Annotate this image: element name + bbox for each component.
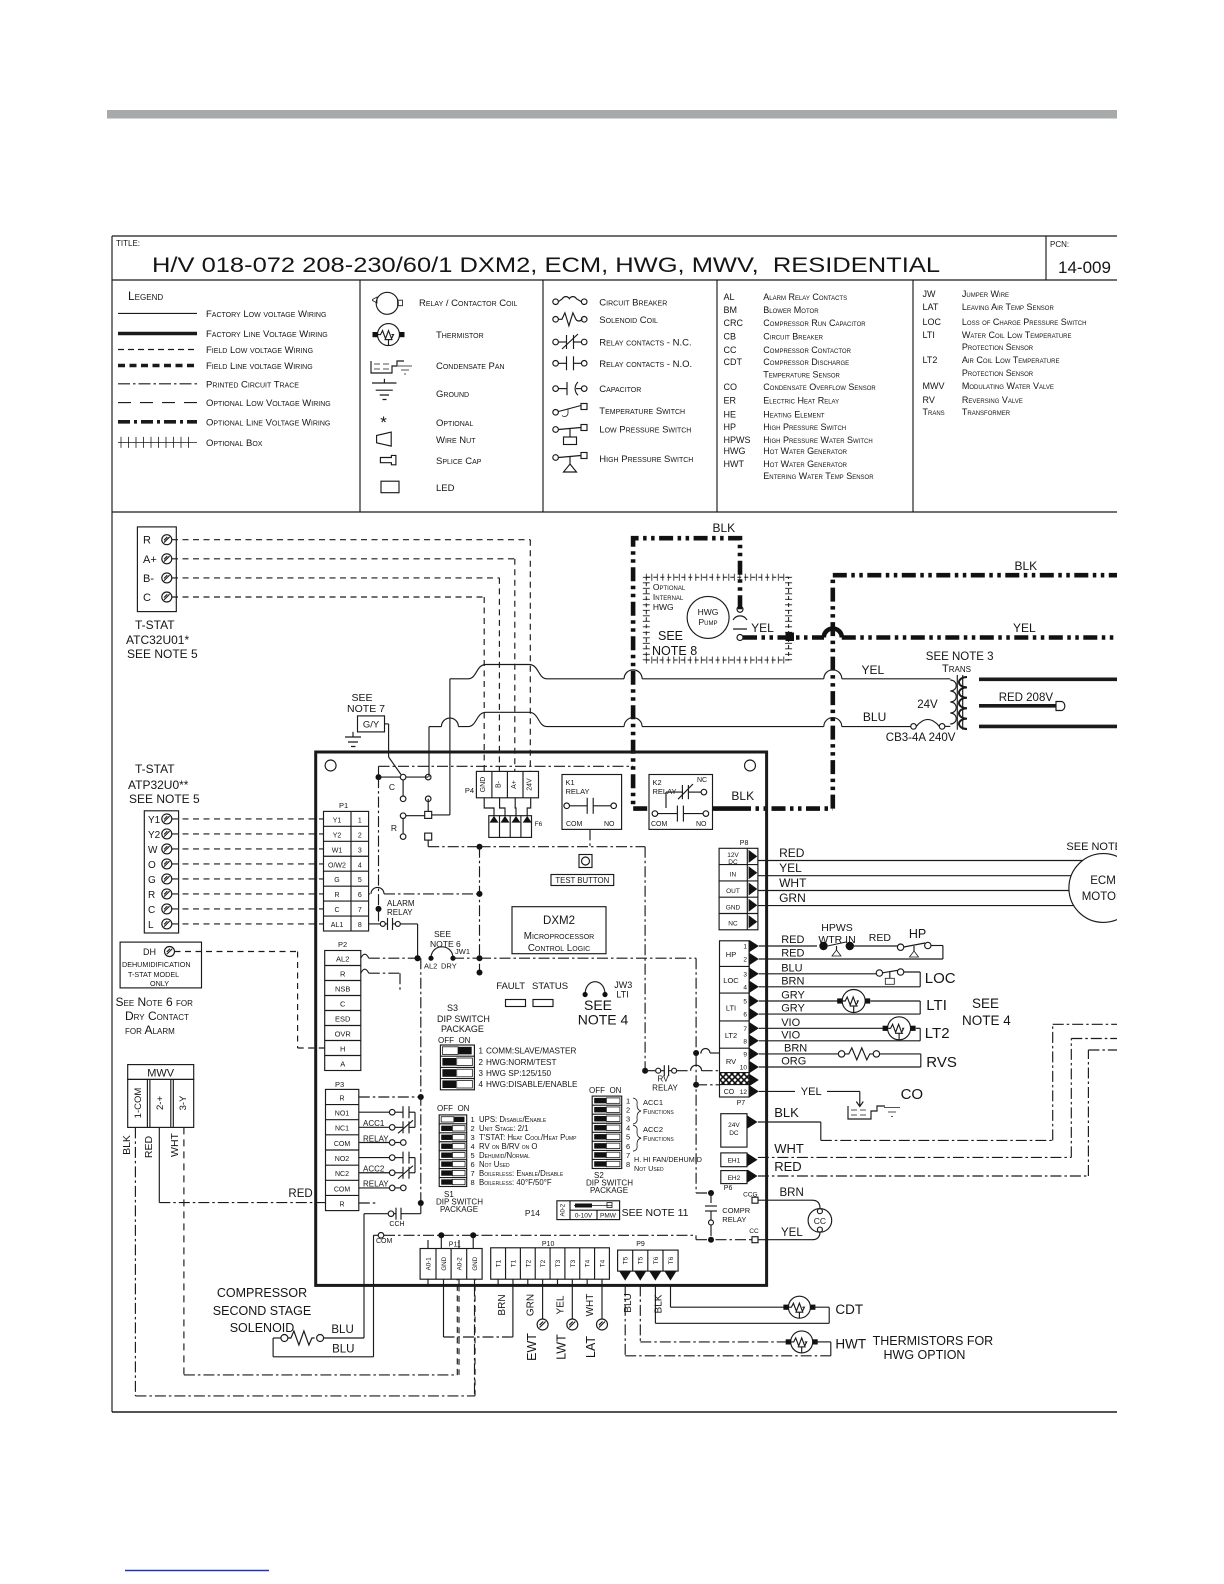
svg-text:DC: DC xyxy=(728,859,738,866)
svg-text:NC: NC xyxy=(697,777,707,784)
svg-text:ER: ER xyxy=(724,395,737,405)
svg-text:YEL: YEL xyxy=(1013,621,1036,635)
svg-text:G: G xyxy=(334,877,339,884)
svg-text:8: 8 xyxy=(743,1038,747,1045)
svg-text:DXM2: DXM2 xyxy=(543,915,575,927)
svg-text:HWG:DISABLE/ENABLE: HWG:DISABLE/ENABLE xyxy=(486,1080,578,1089)
svg-text:HWG:NORM/TEST: HWG:NORM/TEST xyxy=(486,1058,557,1067)
svg-text:COMPR: COMPR xyxy=(722,1206,751,1215)
svg-text:IN: IN xyxy=(730,872,737,879)
svg-text:High Pressure Switch: High Pressure Switch xyxy=(599,454,693,465)
svg-text:Thermistor: Thermistor xyxy=(436,330,484,341)
svg-text:BLK: BLK xyxy=(654,1294,665,1313)
svg-text:RELAY: RELAY xyxy=(566,787,590,796)
svg-text:8: 8 xyxy=(358,922,362,929)
svg-text:PACKAGE: PACKAGE xyxy=(441,1024,484,1034)
contact C xyxy=(400,774,406,780)
svg-text:DC: DC xyxy=(729,1130,739,1137)
thermistor LT2 xyxy=(888,1017,911,1040)
svg-text:R: R xyxy=(340,970,346,979)
svg-text:C: C xyxy=(389,782,395,792)
svg-text:5: 5 xyxy=(626,1133,630,1142)
svg-text:3: 3 xyxy=(358,847,362,854)
svg-text:K1: K1 xyxy=(566,778,575,787)
svg-text:RV: RV xyxy=(726,1057,736,1066)
svg-text:WTR IN: WTR IN xyxy=(818,934,855,946)
wire BLK from MWV 1-COM xyxy=(134,1127,136,1396)
svg-text:RELAY: RELAY xyxy=(363,1180,389,1189)
svg-text:COM: COM xyxy=(334,1186,351,1193)
svg-text:NOTE 6: NOTE 6 xyxy=(430,939,461,949)
svg-text:Air Coil Low Temperature: Air Coil Low Temperature xyxy=(962,355,1060,365)
transformer TRANS primary 24V xyxy=(950,680,956,724)
svg-text:ACC2: ACC2 xyxy=(363,1165,385,1174)
svg-text:Wire Nut: Wire Nut xyxy=(436,435,476,446)
svg-text:Y1: Y1 xyxy=(148,815,161,826)
legend symbol temperature switch xyxy=(553,410,559,416)
svg-text:R: R xyxy=(339,1201,344,1208)
svg-text:VIO: VIO xyxy=(781,1017,800,1029)
svg-text:A0-2: A0-2 xyxy=(457,1257,464,1271)
svg-text:T'STAT: Heat Cool/Heat Pump: T'STAT: Heat Cool/Heat Pump xyxy=(479,1133,577,1142)
svg-text:Microprocessor: Microprocessor xyxy=(524,931,594,942)
svg-text:Relay contacts - N.C.: Relay contacts - N.C. xyxy=(599,338,691,349)
svg-text:AL1: AL1 xyxy=(331,922,344,929)
connector P6 24VDC/EH1/EH2 xyxy=(721,1114,747,1147)
svg-text:R: R xyxy=(339,1095,344,1102)
svg-text:Printed Circuit Trace: Printed Circuit Trace xyxy=(206,379,299,390)
svg-text:A: A xyxy=(340,1060,345,1069)
svg-text:RV on B/RV on O: RV on B/RV on O xyxy=(479,1142,537,1151)
svg-text:ECM: ECM xyxy=(1090,875,1116,887)
svg-text:1: 1 xyxy=(358,817,362,824)
legend symbol high pressure switch xyxy=(553,455,559,461)
svg-text:12V: 12V xyxy=(727,852,739,859)
svg-text:AL2: AL2 xyxy=(336,955,349,964)
svg-text:ORG: ORG xyxy=(781,1056,806,1068)
svg-text:BLU: BLU xyxy=(781,962,802,974)
svg-text:WHT: WHT xyxy=(774,1141,804,1156)
relay K2 xyxy=(649,775,713,830)
svg-text:FAULT: FAULT xyxy=(496,981,525,992)
svg-text:T4: T4 xyxy=(599,1259,606,1267)
wire stubs below connectors xyxy=(427,1279,429,1285)
svg-text:T4: T4 xyxy=(585,1259,592,1267)
thermistor CDT loop xyxy=(671,1306,787,1308)
svg-text:YEL: YEL xyxy=(779,861,802,875)
svg-text:Boilerless: Enable/Disable: Boilerless: Enable/Disable xyxy=(479,1169,564,1178)
svg-text:HWG OPTION: HWG OPTION xyxy=(884,1348,966,1362)
svg-text:1: 1 xyxy=(479,1047,484,1056)
jumper JW1 AL2/DRY xyxy=(431,947,453,958)
svg-text:24V: 24V xyxy=(728,1122,740,1129)
switch HP high pressure xyxy=(897,944,903,950)
screw terminals GRN YEL WHT xyxy=(542,1285,544,1319)
svg-text:T5: T5 xyxy=(638,1256,645,1264)
optional box internal HWG xyxy=(643,574,792,664)
svg-text:Condensate Overflow Sensor: Condensate Overflow Sensor xyxy=(763,382,876,392)
wire BLK 24VDC xyxy=(758,1121,821,1123)
svg-text:Control Logic: Control Logic xyxy=(528,943,590,954)
svg-text:Factory Line Voltage Wiring: Factory Line Voltage Wiring xyxy=(206,329,328,340)
svg-text:Y2: Y2 xyxy=(148,830,161,841)
svg-text:NC: NC xyxy=(728,921,738,928)
svg-text:Condensate Pan: Condensate Pan xyxy=(436,361,505,372)
wire BRN RVS row9 xyxy=(759,1053,839,1055)
svg-text:5: 5 xyxy=(471,1151,475,1160)
svg-text:RV: RV xyxy=(923,395,935,405)
relay K1 xyxy=(562,775,622,830)
svg-text:Optional: Optional xyxy=(653,582,686,592)
wire WHT from MWV 3-Y xyxy=(183,1127,185,1375)
legend symbol condensate pan xyxy=(371,361,404,373)
svg-text:BRN: BRN xyxy=(780,1187,804,1199)
svg-text:Heating Element: Heating Element xyxy=(763,409,825,419)
svg-text:Pump: Pump xyxy=(698,617,717,627)
svg-text:C: C xyxy=(148,905,155,916)
svg-text:RELAY: RELAY xyxy=(387,908,413,917)
svg-text:See Note 6 for: See Note 6 for xyxy=(116,995,194,1009)
footer blue line xyxy=(125,1570,269,1572)
svg-text:A0-1: A0-1 xyxy=(426,1257,433,1271)
svg-text:Compressor Discharge: Compressor Discharge xyxy=(763,357,849,367)
svg-text:T1: T1 xyxy=(510,1259,517,1267)
svg-text:24V: 24V xyxy=(917,699,938,711)
solenoid coil RVS reversing valve xyxy=(838,1051,844,1057)
svg-text:Legend: Legend xyxy=(128,289,163,303)
svg-text:P1: P1 xyxy=(339,801,348,810)
svg-text:HWG SP:125/150: HWG SP:125/150 xyxy=(486,1069,552,1078)
wire BLU 24V to transformer xyxy=(429,726,442,728)
svg-text:AL2: AL2 xyxy=(424,962,437,971)
svg-text:B-: B- xyxy=(496,780,503,788)
svg-text:YEL: YEL xyxy=(751,621,774,635)
node COM and trace to compressor relay xyxy=(378,1233,384,1239)
svg-text:DEHUMIDIFICATION: DEHUMIDIFICATION xyxy=(122,960,191,969)
svg-text:Temperature Sensor: Temperature Sensor xyxy=(763,370,840,380)
svg-text:Circuit Breaker: Circuit Breaker xyxy=(763,332,823,342)
wire BLK heavy optional line voltage xyxy=(633,538,740,808)
svg-text:C: C xyxy=(340,1000,346,1009)
svg-text:12: 12 xyxy=(740,1089,748,1096)
svg-text:Unit Stage: 2/1: Unit Stage: 2/1 xyxy=(479,1124,528,1133)
svg-text:T1: T1 xyxy=(496,1259,503,1267)
svg-text:PACKAGE: PACKAGE xyxy=(440,1205,478,1214)
fuse block F6 xyxy=(489,816,532,838)
legend symbol solenoid coil xyxy=(553,317,559,323)
svg-text:L: L xyxy=(148,920,154,931)
svg-text:JW3: JW3 xyxy=(614,980,632,990)
svg-text:ACC1: ACC1 xyxy=(643,1098,663,1107)
svg-text:NC1: NC1 xyxy=(335,1126,349,1133)
svg-text:ALARM: ALARM xyxy=(387,899,415,908)
svg-text:Ground: Ground xyxy=(436,389,469,400)
svg-text:W: W xyxy=(148,845,158,856)
svg-text:SEE: SEE xyxy=(434,929,451,939)
svg-text:3-Y: 3-Y xyxy=(178,1095,189,1110)
svg-text:24V: 24V xyxy=(527,778,534,791)
svg-text:EH2: EH2 xyxy=(728,1175,741,1182)
svg-text:Dry Contact: Dry Contact xyxy=(125,1009,189,1023)
svg-text:10: 10 xyxy=(740,1065,748,1072)
svg-text:2: 2 xyxy=(358,832,362,839)
svg-text:0-10V: 0-10V xyxy=(575,1213,593,1220)
svg-text:HP: HP xyxy=(909,927,926,941)
svg-text:RELAY: RELAY xyxy=(653,787,677,796)
svg-text:G/Y: G/Y xyxy=(363,720,380,731)
svg-text:T-STAT: T-STAT xyxy=(135,618,175,632)
svg-text:LTI: LTI xyxy=(616,990,628,1000)
svg-text:RED: RED xyxy=(288,1188,312,1200)
svg-text:4: 4 xyxy=(743,984,747,991)
svg-text:PACKAGE: PACKAGE xyxy=(590,1186,628,1195)
svg-text:WHT: WHT xyxy=(585,1294,596,1317)
svg-text:RED 208V: RED 208V xyxy=(999,692,1054,704)
svg-text:GND: GND xyxy=(441,1256,448,1270)
svg-text:4: 4 xyxy=(626,1124,630,1133)
svg-text:BRN: BRN xyxy=(497,1294,508,1315)
svg-text:6: 6 xyxy=(358,892,362,899)
thermistor HWT loop xyxy=(640,1341,788,1343)
svg-text:COM: COM xyxy=(566,821,583,828)
svg-text:ATP32U0**: ATP32U0** xyxy=(128,778,189,792)
wire YEL CO row12 xyxy=(759,1090,795,1092)
svg-text:Relay / Contactor Coil: Relay / Contactor Coil xyxy=(419,298,518,309)
svg-text:High Pressure Water Switch: High Pressure Water Switch xyxy=(763,435,872,445)
svg-text:Water Coil Low Temperature: Water Coil Low Temperature xyxy=(962,330,1072,340)
svg-text:A+: A+ xyxy=(143,554,157,566)
svg-text:Reversing Valve: Reversing Valve xyxy=(962,395,1023,405)
svg-text:ACC2: ACC2 xyxy=(643,1125,663,1134)
svg-text:CC: CC xyxy=(724,345,737,355)
connector P4 xyxy=(476,771,538,797)
svg-text:GND: GND xyxy=(472,1256,479,1270)
svg-text:Trans: Trans xyxy=(942,663,971,675)
svg-text:GRY: GRY xyxy=(781,1003,805,1015)
wire YEL 24V to transformer xyxy=(450,678,460,680)
svg-text:CC: CC xyxy=(814,1216,826,1226)
terminal strip T-STAT ATC32U01 xyxy=(137,527,176,612)
svg-text:Optional Box: Optional Box xyxy=(206,438,263,449)
svg-text:RVS: RVS xyxy=(926,1054,957,1071)
svg-text:Circuit Breaker: Circuit Breaker xyxy=(599,298,667,309)
svg-text:BLK: BLK xyxy=(731,789,754,803)
svg-text:NO: NO xyxy=(604,821,615,828)
svg-text:LTI: LTI xyxy=(923,330,935,340)
svg-text:P3: P3 xyxy=(335,1080,344,1089)
svg-text:BLK: BLK xyxy=(713,521,736,535)
svg-text:BLK: BLK xyxy=(121,1135,133,1155)
svg-text:GRY: GRY xyxy=(781,990,805,1002)
svg-text:RED: RED xyxy=(779,846,805,860)
svg-text:COMPRESSOR: COMPRESSOR xyxy=(217,1286,307,1300)
terminal block MWV xyxy=(128,1065,194,1080)
svg-text:PCN:: PCN: xyxy=(1050,240,1069,249)
svg-text:LT2: LT2 xyxy=(925,1025,950,1042)
svg-text:5: 5 xyxy=(358,877,362,884)
svg-text:T2: T2 xyxy=(540,1259,547,1267)
svg-text:Y2: Y2 xyxy=(333,832,342,839)
svg-text:RV: RV xyxy=(658,1075,670,1084)
svg-text:NO: NO xyxy=(696,821,707,828)
wire GRY LTI row5 xyxy=(759,1000,840,1002)
svg-text:Protection Sensor: Protection Sensor xyxy=(962,342,1034,352)
svg-text:GRN: GRN xyxy=(779,891,806,905)
svg-text:HP: HP xyxy=(726,950,736,959)
svg-text:YEL: YEL xyxy=(781,1227,803,1239)
svg-text:COMM:SLAVE/MASTER: COMM:SLAVE/MASTER xyxy=(486,1047,576,1056)
svg-text:Relay contacts - N.O.: Relay contacts - N.O. xyxy=(599,359,692,370)
legend symbol LED xyxy=(381,481,399,493)
svg-text:RED: RED xyxy=(781,934,804,946)
circuit breaker CB3-4A 240V xyxy=(911,724,917,730)
svg-text:YEL: YEL xyxy=(862,663,885,677)
wire AL2 optional trace xyxy=(361,954,369,958)
svg-text:GRN: GRN xyxy=(526,1294,537,1316)
svg-text:RED: RED xyxy=(869,932,892,944)
svg-text:5: 5 xyxy=(743,999,747,1006)
svg-text:BLK: BLK xyxy=(1015,559,1038,573)
svg-text:Factory Low voltage Wiring: Factory Low voltage Wiring xyxy=(206,309,326,320)
svg-text:O/W2: O/W2 xyxy=(328,862,346,869)
svg-text:UPS: Disable/Enable: UPS: Disable/Enable xyxy=(479,1115,547,1124)
svg-text:3: 3 xyxy=(743,971,747,978)
svg-text:Field Line voltage Wiring: Field Line voltage Wiring xyxy=(206,361,313,372)
svg-text:7: 7 xyxy=(471,1169,475,1178)
svg-text:*: * xyxy=(380,413,387,432)
svg-text:Capacitor: Capacitor xyxy=(599,384,641,395)
svg-text:3: 3 xyxy=(471,1133,475,1142)
svg-text:THERMISTORS FOR: THERMISTORS FOR xyxy=(873,1334,994,1348)
svg-text:High Pressure Switch: High Pressure Switch xyxy=(763,422,846,432)
svg-text:HWT: HWT xyxy=(724,459,745,469)
switch HPWS WTR IN xyxy=(819,942,827,950)
svg-text:DIP SWITCH: DIP SWITCH xyxy=(437,1014,490,1024)
wire trace R row xyxy=(369,893,370,895)
svg-text:2: 2 xyxy=(626,1106,630,1115)
svg-text:CC: CC xyxy=(749,1228,759,1235)
svg-text:G: G xyxy=(148,875,156,886)
svg-text:MWV: MWV xyxy=(147,1068,175,1080)
svg-text:EWT: EWT xyxy=(525,1333,539,1361)
switch LOC loss of charge xyxy=(876,970,882,976)
svg-text:CRC: CRC xyxy=(724,318,744,328)
svg-text:HP: HP xyxy=(724,422,737,432)
svg-text:4: 4 xyxy=(471,1142,475,1151)
DXM2 board outline xyxy=(316,752,767,1285)
test button xyxy=(579,855,592,868)
svg-text:3: 3 xyxy=(626,1115,630,1124)
svg-text:H: H xyxy=(340,1045,345,1054)
svg-text:BLK: BLK xyxy=(774,1105,799,1120)
legend symbol relay / contactor coil xyxy=(376,292,398,314)
svg-text:R: R xyxy=(334,892,339,899)
svg-text:NC2: NC2 xyxy=(335,1171,349,1178)
wire trace P3 R rows xyxy=(359,1096,421,1098)
svg-text:Blower Motor: Blower Motor xyxy=(763,305,819,315)
wire DH to P2 H (dashed) xyxy=(298,1047,325,1049)
compressor contactor CC coil xyxy=(808,1209,832,1233)
svg-text:R: R xyxy=(148,890,155,901)
svg-text:HWG: HWG xyxy=(698,607,719,617)
svg-text:F6: F6 xyxy=(535,821,543,828)
svg-text:PMW: PMW xyxy=(600,1213,617,1220)
svg-text:Modulating Water Valve: Modulating Water Valve xyxy=(962,381,1054,391)
splice cap RED 208V xyxy=(1056,702,1065,711)
svg-text:RELAY: RELAY xyxy=(652,1084,678,1093)
svg-text:CDT: CDT xyxy=(724,357,743,367)
svg-text:Optional: Optional xyxy=(436,418,473,429)
svg-text:COM: COM xyxy=(334,1141,351,1148)
svg-text:H/V 018-072 208-230/60/1 DXM2,: H/V 018-072 208-230/60/1 DXM2, ECM, HWG,… xyxy=(152,253,940,277)
svg-text:NO2: NO2 xyxy=(335,1156,350,1163)
svg-text:3: 3 xyxy=(479,1069,484,1078)
svg-text:2: 2 xyxy=(479,1058,484,1067)
legend symbol relay contacts N.C. xyxy=(553,339,559,345)
svg-text:NO1: NO1 xyxy=(335,1111,350,1118)
svg-text:ESD: ESD xyxy=(335,1015,351,1024)
wire A0-2 to MWV WHT xyxy=(458,1285,460,1375)
svg-text:Hot Water Generator: Hot Water Generator xyxy=(763,446,847,456)
svg-text:CCH: CCH xyxy=(389,1221,404,1228)
svg-text:RELAY: RELAY xyxy=(363,1134,389,1143)
svg-text:H. HI FAN/DEHUMID: H. HI FAN/DEHUMID xyxy=(634,1155,702,1164)
svg-text:2: 2 xyxy=(743,957,747,964)
svg-text:Protection Sensor: Protection Sensor xyxy=(962,368,1034,378)
svg-text:CO: CO xyxy=(901,1086,924,1103)
relay RV contact xyxy=(642,1068,648,1074)
svg-text:SEE: SEE xyxy=(972,996,999,1011)
legend symbol low pressure switch xyxy=(553,427,559,433)
svg-text:1: 1 xyxy=(471,1115,475,1124)
svg-text:HPWS: HPWS xyxy=(821,922,853,934)
svg-text:BLU: BLU xyxy=(863,710,886,724)
svg-text:NSB: NSB xyxy=(335,985,350,994)
svg-text:W1: W1 xyxy=(332,847,343,854)
svg-text:JW: JW xyxy=(923,289,937,299)
alarm relay contact AL xyxy=(369,923,380,925)
svg-text:6: 6 xyxy=(626,1142,630,1151)
thermistor LTI xyxy=(842,990,865,1013)
wire GND P11 to MWV BLK xyxy=(474,1285,476,1396)
svg-text:Dehumid/Normal: Dehumid/Normal xyxy=(479,1151,530,1160)
svg-text:LWT: LWT xyxy=(555,1334,569,1360)
svg-text:1-COM: 1-COM xyxy=(133,1088,144,1119)
svg-text:P2: P2 xyxy=(338,940,347,949)
svg-text:HWT: HWT xyxy=(835,1337,866,1352)
svg-text:C: C xyxy=(143,592,151,604)
svg-text:NOTE 8: NOTE 8 xyxy=(652,644,697,658)
svg-text:K2: K2 xyxy=(653,778,662,787)
svg-text:BRN: BRN xyxy=(784,1042,807,1054)
svg-text:Entering Water Temp Sensor: Entering Water Temp Sensor xyxy=(763,471,874,481)
svg-text:HWG: HWG xyxy=(653,602,674,612)
wire trace to alarm relay xyxy=(378,777,380,909)
svg-text:T3: T3 xyxy=(570,1259,577,1267)
svg-text:T6: T6 xyxy=(653,1256,660,1264)
HWG pump motor xyxy=(687,596,729,638)
svg-text:YEL: YEL xyxy=(801,1086,822,1098)
svg-text:Y1: Y1 xyxy=(333,817,342,824)
svg-text:CO: CO xyxy=(724,1089,735,1096)
svg-text:O: O xyxy=(148,860,156,871)
svg-text:Functions: Functions xyxy=(643,1107,674,1116)
svg-text:HPWS: HPWS xyxy=(724,435,751,445)
svg-text:P14: P14 xyxy=(525,1208,540,1218)
legend symbol thermistor xyxy=(378,324,400,346)
svg-text:RELAY: RELAY xyxy=(722,1215,746,1224)
svg-text:BLU: BLU xyxy=(332,1344,354,1356)
